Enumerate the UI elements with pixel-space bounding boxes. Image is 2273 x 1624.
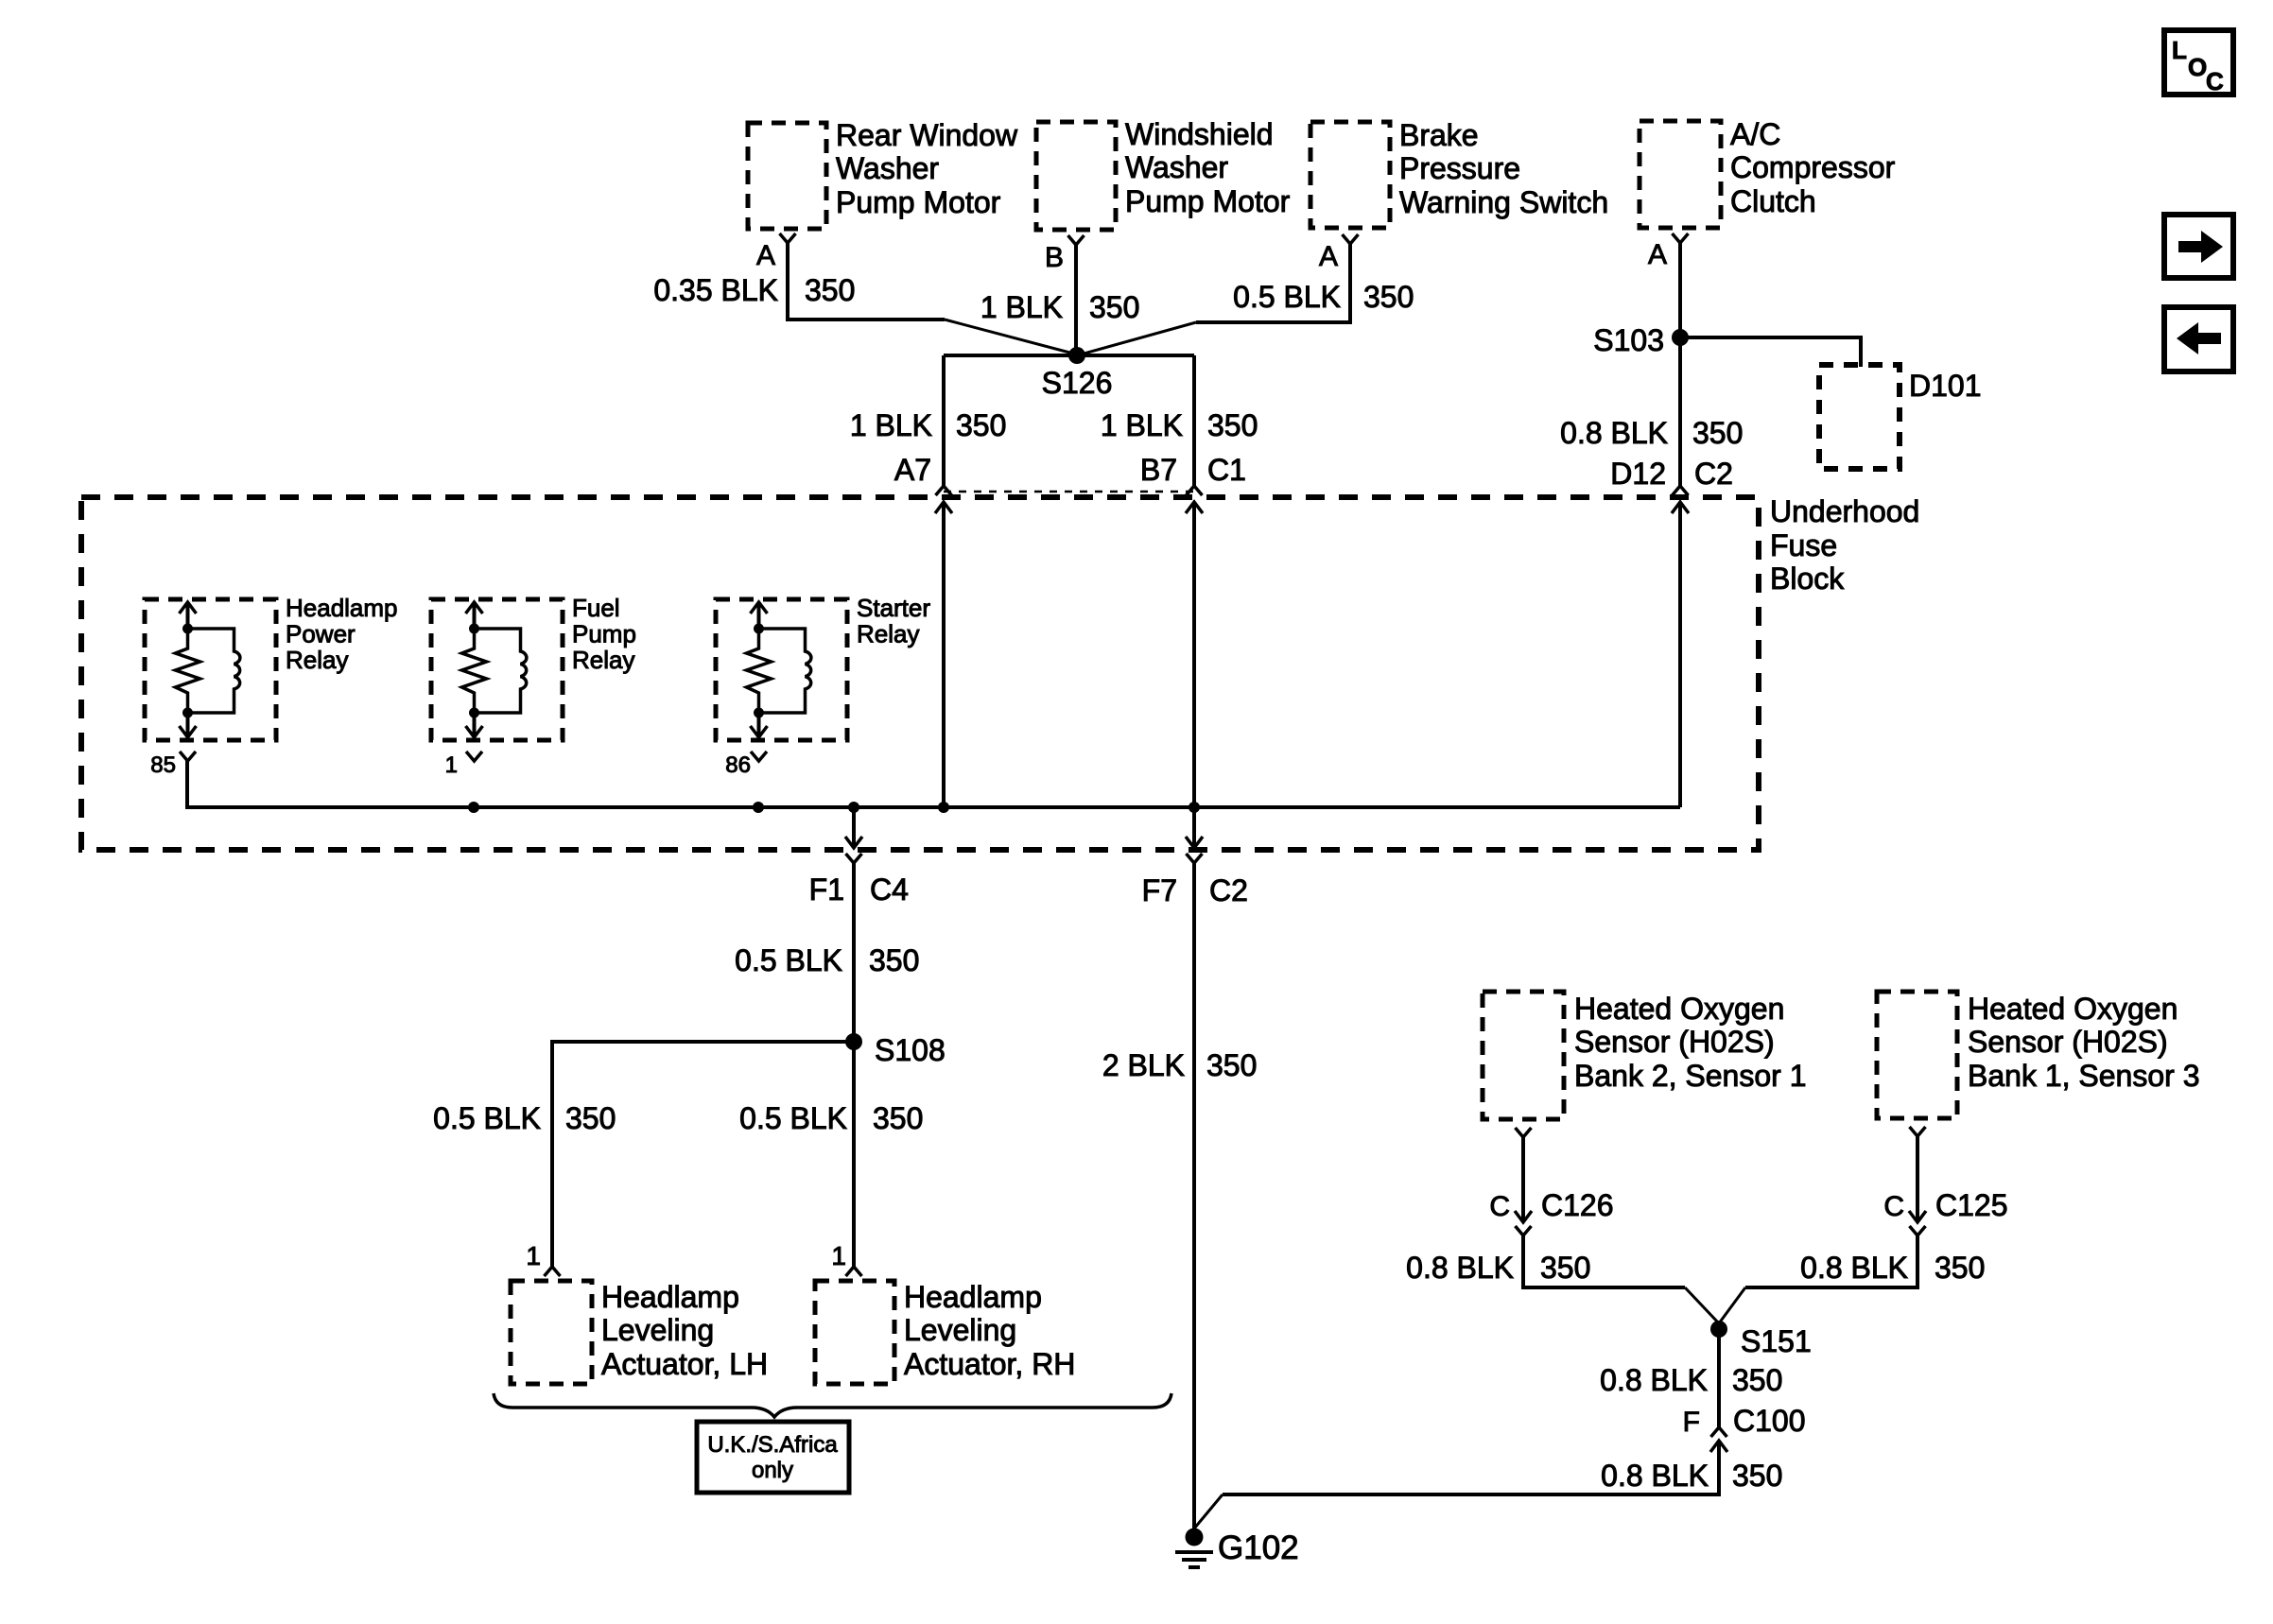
svg-text:2 BLK: 2 BLK: [1102, 1048, 1185, 1082]
connector Y at Headlamp Leveling Actuator RH: [846, 1267, 862, 1276]
relay: Headlamp Power Relay: [145, 599, 276, 740]
svg-text:S108: S108: [875, 1033, 946, 1067]
svg-text:A/C: A/C: [1730, 117, 1780, 151]
component box: Windshield Washer Pump Motor: [1036, 117, 1291, 230]
wire 0.8 BLK 350 from S151 to C100: [1717, 1329, 1721, 1427]
arrowhead at bottom of Fuel Pump Relay: [466, 726, 483, 737]
splice S151: [1710, 1321, 1727, 1338]
wire from H02S Bank 1 Sensor 3 to C125: [1916, 1136, 1919, 1222]
svg-text:U.K./S.Africa: U.K./S.Africa: [707, 1432, 838, 1458]
svg-text:A: A: [1648, 239, 1667, 270]
arrowhead at top of Fuel Pump Relay: [466, 602, 483, 613]
svg-text:Relay: Relay: [286, 646, 348, 674]
arrowhead leaving fuse block at F1: [845, 837, 862, 848]
svg-text:D101: D101: [1909, 369, 1982, 403]
svg-text:350: 350: [956, 408, 1006, 442]
svg-text:Headlamp: Headlamp: [904, 1280, 1042, 1314]
svg-text:Headlamp: Headlamp: [286, 594, 398, 622]
arrowhead entering fuse block at B7: [1186, 502, 1203, 513]
svg-text:C4: C4: [870, 872, 909, 907]
connector Y below Fuel Pump Relay: [466, 752, 482, 761]
svg-text:Leveling: Leveling: [601, 1313, 714, 1347]
svg-text:1: 1: [445, 752, 458, 778]
svg-text:Block: Block: [1770, 561, 1845, 596]
svg-text:Fuse: Fuse: [1770, 528, 1837, 562]
connector Y at Brake Pressure Warning Switch pin A: [1343, 234, 1359, 244]
component box: Heated Oxygen Sensor (H02S) Bank 2, Sensor 1: [1483, 992, 1806, 1119]
wire 0.8 BLK 350 from C126 to S151: [1523, 1235, 1685, 1287]
svg-text:Bank 2, Sensor 1: Bank 2, Sensor 1: [1574, 1059, 1806, 1093]
svg-text:O: O: [2188, 53, 2207, 81]
arrowhead leaving fuse block at F7: [1186, 837, 1203, 848]
component box: Headlamp Leveling Actuator RH: [815, 1280, 1075, 1384]
svg-text:350: 350: [1732, 1363, 1782, 1397]
svg-text:350: 350: [1089, 290, 1139, 324]
svg-text:Clutch: Clutch: [1730, 184, 1816, 218]
svg-text:C2: C2: [1209, 873, 1248, 907]
wire 0.35 BLK 350 from pin A to S126: [788, 243, 945, 320]
svg-text:Sensor (H02S): Sensor (H02S): [1574, 1025, 1775, 1059]
component box: A/C Compressor Clutch: [1640, 117, 1896, 228]
svg-text:350: 350: [1207, 408, 1258, 442]
wire 1 BLK 350 from pin B to S126: [1074, 245, 1078, 352]
svg-text:0.5 BLK: 0.5 BLK: [735, 943, 842, 977]
wire 0.5 BLK 350 from brake switch to S126: [1196, 244, 1350, 322]
svg-text:Windshield: Windshield: [1125, 117, 1274, 151]
wire: S126 distribution rectangle top: [944, 354, 1194, 357]
underhood fuse block dashed boundary: [81, 497, 1759, 850]
svg-text:S126: S126: [1042, 366, 1113, 400]
note box U.K./S.Africa only: [697, 1422, 849, 1493]
connector C1 dotted joint line between A7 and B7: [944, 491, 1194, 493]
resistor (Fuel Pump Relay): [462, 629, 487, 713]
svg-text:Pump Motor: Pump Motor: [1125, 184, 1291, 218]
svg-text:Pressure: Pressure: [1399, 151, 1520, 185]
svg-text:Actuator, RH: Actuator, RH: [904, 1347, 1075, 1381]
in-line connector C125 (arrow into Y): [1909, 1211, 1926, 1235]
svg-text:C: C: [1883, 1191, 1904, 1222]
junction dot top (Starter Relay): [754, 624, 764, 634]
svg-text:Warning Switch: Warning Switch: [1399, 185, 1608, 219]
svg-text:S151: S151: [1741, 1324, 1812, 1358]
svg-text:F1: F1: [809, 872, 844, 907]
wire inside fuse block from A7 down to ground bus: [942, 502, 946, 807]
label text: Fuel Pump Relay: [572, 594, 636, 674]
svg-text:Washer: Washer: [1125, 150, 1228, 184]
svg-text:B7: B7: [1140, 453, 1177, 487]
coil feed wire inside Fuel Pump Relay: [473, 602, 477, 629]
svg-text:350: 350: [1206, 1048, 1257, 1082]
svg-text:Heated Oxygen: Heated Oxygen: [1574, 992, 1784, 1026]
svg-text:G102: G102: [1218, 1529, 1299, 1566]
relay: Starter Relay: [716, 599, 847, 740]
svg-text:0.35 BLK: 0.35 BLK: [653, 273, 778, 307]
wire inside fuse block from D12 down to ground bus: [1678, 502, 1682, 807]
component box: Rear Window Washer Pump Motor: [748, 118, 1018, 229]
arrowhead at top of Starter Relay: [751, 602, 768, 613]
connector Y below Headlamp Power Relay: [180, 752, 196, 761]
arrowhead entering fuse block at D12: [1672, 502, 1689, 513]
wire to bottom pin (Fuel Pump Relay): [473, 713, 477, 736]
svg-text:Washer: Washer: [836, 151, 939, 185]
wire 0.8 BLK 350 from C125 to S151: [1745, 1235, 1917, 1287]
svg-text:only: only: [752, 1458, 793, 1483]
arrowhead at bottom of Headlamp Power Relay: [180, 726, 197, 737]
coil (Fuel Pump Relay): [475, 629, 527, 713]
connector Y below Starter Relay: [751, 752, 767, 761]
wire inside fuse block from B7/C1 down through bus to F7: [1192, 502, 1196, 847]
svg-text:350: 350: [565, 1101, 616, 1135]
wire 0.8 BLK 350 from A/C clutch down to fuse block pin D12: [1678, 243, 1682, 486]
connector Y at Windshield Washer Pump Motor pin B: [1068, 235, 1084, 245]
svg-text:350: 350: [869, 943, 919, 977]
svg-text:C: C: [2206, 67, 2224, 95]
svg-text:350: 350: [1732, 1459, 1782, 1493]
resistor (Headlamp Power Relay): [176, 629, 200, 713]
label text: Starter Relay: [857, 594, 930, 648]
arrowhead entering fuse block at A7: [935, 502, 952, 513]
wire from bus down to F1: [852, 807, 856, 847]
svg-text:0.5 BLK: 0.5 BLK: [739, 1101, 847, 1135]
svg-text:350: 350: [1692, 416, 1743, 450]
svg-text:L: L: [2172, 36, 2187, 64]
component box: Brake Pressure Warning Switch: [1310, 118, 1608, 228]
svg-text:86: 86: [725, 752, 751, 778]
svg-text:350: 350: [1540, 1251, 1590, 1285]
splice S108: [845, 1033, 862, 1050]
connector Y below H02S Bank 1 Sensor 3: [1910, 1127, 1926, 1136]
connector Y below fuse block at F7: [1187, 854, 1203, 863]
connector Y at fuse block pin D12: [1673, 486, 1689, 495]
svg-text:C125: C125: [1935, 1188, 2008, 1222]
svg-text:350: 350: [1935, 1251, 1985, 1285]
splice S126: [1068, 347, 1085, 364]
arrowhead at top of Headlamp Power Relay: [180, 602, 197, 613]
component box: Heated Oxygen Sensor (H02S) Bank 1, Sensor 3: [1877, 992, 2199, 1118]
bus junction dot at F1 drop: [848, 802, 859, 813]
junction dot bottom (Starter Relay): [754, 708, 764, 718]
bus junction dot at fuel pump relay wire: [468, 802, 479, 813]
svg-text:Compressor: Compressor: [1730, 150, 1896, 184]
LOC legend box: [2164, 30, 2233, 95]
svg-text:85: 85: [150, 752, 176, 778]
svg-text:A: A: [756, 240, 775, 271]
connector Y at fuse block pin A7: [936, 486, 952, 495]
splice S103: [1672, 329, 1689, 346]
svg-text:Underhood: Underhood: [1770, 494, 1919, 528]
wire: left leg of S126 rectangle (1 BLK 350 to A7): [942, 355, 946, 486]
bus junction dot at starter relay wire: [753, 802, 764, 813]
connector Y at fuse block pin B7: [1187, 486, 1203, 495]
svg-text:350: 350: [1363, 280, 1414, 314]
wire branch from S103 to diode D101: [1680, 337, 1861, 367]
svg-text:0.8 BLK: 0.8 BLK: [1560, 416, 1668, 450]
svg-text:Relay: Relay: [572, 646, 634, 674]
junction dot top (Fuel Pump Relay): [469, 624, 479, 634]
junction dot bottom (Headlamp Power Relay): [182, 708, 193, 718]
connector Y at Rear Window Washer Pump Motor pin A: [780, 233, 796, 243]
svg-text:F: F: [1683, 1407, 1700, 1438]
svg-text:Headlamp: Headlamp: [601, 1280, 739, 1314]
connector Y below fuse block at F1: [846, 854, 862, 863]
svg-text:0.8 BLK: 0.8 BLK: [1600, 1363, 1708, 1397]
brace grouping U.K./S.Africa variant: [494, 1393, 1171, 1417]
wire 0.5 BLK 350 from F1 to S108: [852, 863, 856, 1042]
svg-text:Brake: Brake: [1399, 118, 1479, 152]
svg-text:C126: C126: [1541, 1188, 1614, 1222]
svg-text:1 BLK: 1 BLK: [980, 290, 1063, 324]
svg-text:Relay: Relay: [857, 620, 919, 648]
svg-text:350: 350: [873, 1101, 923, 1135]
svg-text:1: 1: [526, 1241, 541, 1270]
connector Y at A/C Compressor Clutch pin A: [1673, 233, 1689, 243]
junction dot bottom (Fuel Pump Relay): [469, 708, 479, 718]
connector Y below H02S Bank 2 Sensor 1: [1516, 1128, 1532, 1137]
bus junction dot at A7 wire: [938, 802, 949, 813]
svg-text:0.5 BLK: 0.5 BLK: [1233, 280, 1341, 314]
svg-text:Rear Window: Rear Window: [836, 118, 1018, 152]
coil (Starter Relay): [759, 629, 811, 713]
relay: Fuel Pump Relay: [431, 599, 563, 740]
wire from S108 to right actuator: [852, 1042, 856, 1267]
svg-text:D12: D12: [1610, 457, 1666, 491]
svg-text:Heated Oxygen: Heated Oxygen: [1968, 992, 2178, 1026]
wire: right leg of S126 rectangle (1 BLK 350 to B7): [1192, 355, 1196, 486]
svg-text:S103: S103: [1593, 323, 1664, 357]
wire from S108 to left actuator: [552, 1042, 854, 1267]
svg-text:Pump Motor: Pump Motor: [836, 185, 1001, 219]
svg-text:Pump: Pump: [572, 620, 636, 648]
svg-text:1 BLK: 1 BLK: [1101, 408, 1183, 442]
wire to bottom pin (Headlamp Power Relay): [186, 713, 190, 736]
wire 2 BLK 350 from F7 to ground G102: [1192, 863, 1196, 1529]
wire 0.8 BLK 350 from C100 to ground G102: [1223, 1441, 1719, 1494]
svg-text:C100: C100: [1733, 1404, 1806, 1438]
svg-text:A7: A7: [894, 453, 931, 487]
component box: Headlamp Leveling Actuator LH: [511, 1280, 768, 1384]
diode box D101: [1819, 365, 1900, 469]
svg-text:Power: Power: [286, 620, 356, 648]
svg-text:0.8 BLK: 0.8 BLK: [1406, 1251, 1514, 1285]
resistor (Starter Relay): [747, 629, 772, 713]
svg-text:Actuator, LH: Actuator, LH: [601, 1347, 768, 1381]
svg-text:Leveling: Leveling: [904, 1313, 1016, 1347]
svg-text:0.8 BLK: 0.8 BLK: [1601, 1459, 1709, 1493]
junction dot top (Headlamp Power Relay): [182, 624, 193, 634]
bus junction dot at F7 wire: [1189, 802, 1200, 813]
coil feed wire inside Headlamp Power Relay: [186, 602, 190, 629]
left-arrow legend box: [2164, 307, 2233, 371]
svg-text:A: A: [1319, 241, 1338, 272]
svg-text:C1: C1: [1207, 453, 1246, 487]
coil feed wire inside Starter Relay: [757, 602, 761, 629]
right-arrow legend box: [2164, 215, 2233, 278]
svg-text:Bank 1, Sensor 3: Bank 1, Sensor 3: [1968, 1059, 2199, 1093]
svg-text:Sensor (H02S): Sensor (H02S): [1968, 1025, 2168, 1059]
in-line connector C126 (arrow into Y): [1515, 1211, 1532, 1235]
svg-text:Starter: Starter: [857, 594, 930, 622]
wire from H02S Bank 2 Sensor 1 to C126: [1521, 1137, 1525, 1222]
label Underhood Fuse Block: [1770, 494, 1919, 596]
svg-text:0.5 BLK: 0.5 BLK: [433, 1101, 541, 1135]
arrowhead at bottom of Starter Relay: [751, 726, 768, 737]
wire to bottom pin (Starter Relay): [757, 713, 761, 736]
svg-text:350: 350: [805, 273, 855, 307]
label text: Headlamp Power Relay: [286, 594, 398, 674]
svg-text:C: C: [1489, 1191, 1510, 1222]
coil (Headlamp Power Relay): [188, 629, 240, 713]
svg-text:F7: F7: [1142, 873, 1177, 907]
svg-text:C2: C2: [1694, 457, 1733, 491]
svg-text:Fuel: Fuel: [572, 594, 620, 622]
svg-text:1 BLK: 1 BLK: [850, 408, 932, 442]
connector Y at Headlamp Leveling Actuator LH: [545, 1267, 561, 1276]
svg-text:0.8 BLK: 0.8 BLK: [1800, 1251, 1908, 1285]
in-line connector C100 (Y above arrow): [1710, 1427, 1727, 1452]
svg-text:1: 1: [831, 1241, 846, 1270]
svg-text:B: B: [1045, 242, 1064, 273]
ground G102 symbol: [1175, 1529, 1213, 1568]
ground bus wire inside fuse block: [187, 761, 1680, 807]
